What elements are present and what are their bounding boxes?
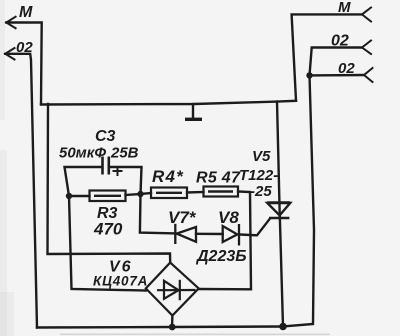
wire: right vertical down to bottom bus (283, 75, 314, 326)
junction dot (R3/C3 left) (66, 193, 72, 199)
wire: right node down to V7 anode (140, 194, 175, 233)
wire: V8 cathode to thyristor gate (239, 219, 270, 236)
wire: right 02 lower lead (310, 74, 365, 77)
chassis stem (192, 104, 194, 118)
wire: left 02 arrow lead, down the left side (5, 54, 37, 328)
wire: left M arrow lead (6, 23, 41, 105)
svg-text:V7*: V7* (168, 208, 197, 227)
wire: top horizontal bus (41, 101, 296, 105)
svg-text:25В: 25В (110, 145, 139, 162)
wire: right 02 upper lead (310, 48, 363, 76)
svg-text:М: М (19, 4, 33, 21)
svg-text:Т122-: Т122- (239, 167, 278, 184)
junction dot (bridge bottom) (169, 324, 176, 331)
thyristor V5 (267, 203, 290, 219)
svg-text:Д223Б: Д223Б (195, 248, 247, 265)
svg-text:50мкФ: 50мкФ (59, 145, 106, 162)
wire: thyristor cathode down to bus (280, 216, 283, 327)
wire: V7 cathode to V8 anode (196, 233, 223, 236)
C3 plus sign (113, 166, 123, 176)
wire: R4-R5 link (187, 191, 204, 194)
svg-text:М: М (338, 0, 351, 16)
svg-text:02: 02 (338, 60, 355, 77)
svg-text:С3: С3 (95, 128, 116, 145)
resistor R3 (90, 191, 126, 202)
wire: R3 left lead (69, 195, 90, 197)
wire: thyristor anode from bus (277, 102, 280, 218)
connector fork 02 (right lower) (364, 68, 373, 82)
bridge rectifier V6 (146, 263, 199, 316)
svg-text:-25: -25 (250, 183, 272, 200)
junction dot (02 right) (306, 72, 312, 78)
svg-text:КЦ407А: КЦ407А (93, 274, 148, 289)
capacitor C3 plates (103, 157, 109, 175)
svg-text:02: 02 (16, 39, 33, 56)
wire: bottom bus (37, 327, 283, 328)
diode V8 (223, 224, 239, 246)
svg-text:470: 470 (93, 220, 123, 239)
connector arrow M (left) (6, 17, 15, 29)
resistor R4 (151, 188, 187, 199)
wire: C3 left lead (65, 167, 103, 196)
connector arrow 02 (left) (5, 48, 14, 60)
wire: tap from bus down to bridge top (48, 104, 171, 263)
wire: left node down to bridge left corner (69, 196, 146, 291)
wire: R3 right lead (126, 194, 141, 195)
wire: bridge bottom corner to bus (171, 316, 174, 328)
svg-text:R5 47: R5 47 (196, 170, 241, 187)
junction dot (R3/C3 right) (137, 191, 143, 197)
diode V7 (175, 224, 196, 244)
svg-text:V8: V8 (218, 208, 239, 227)
connector fork 02 (right upper) (362, 41, 371, 55)
resistor R5 (204, 187, 239, 197)
chassis bar (185, 118, 202, 121)
wire: C3 right lead (109, 167, 142, 194)
wire: R5 right lead down to bridge right corner (199, 192, 251, 290)
svg-text:02: 02 (331, 33, 349, 50)
svg-text:R4*: R4* (152, 167, 184, 186)
svg-text:V5: V5 (252, 148, 271, 165)
wire: R4 left lead (141, 193, 152, 194)
junction dot (thyristor bottom) (279, 323, 287, 331)
connector fork M (right) (362, 8, 371, 22)
wire: right M lead up and out (292, 14, 362, 100)
